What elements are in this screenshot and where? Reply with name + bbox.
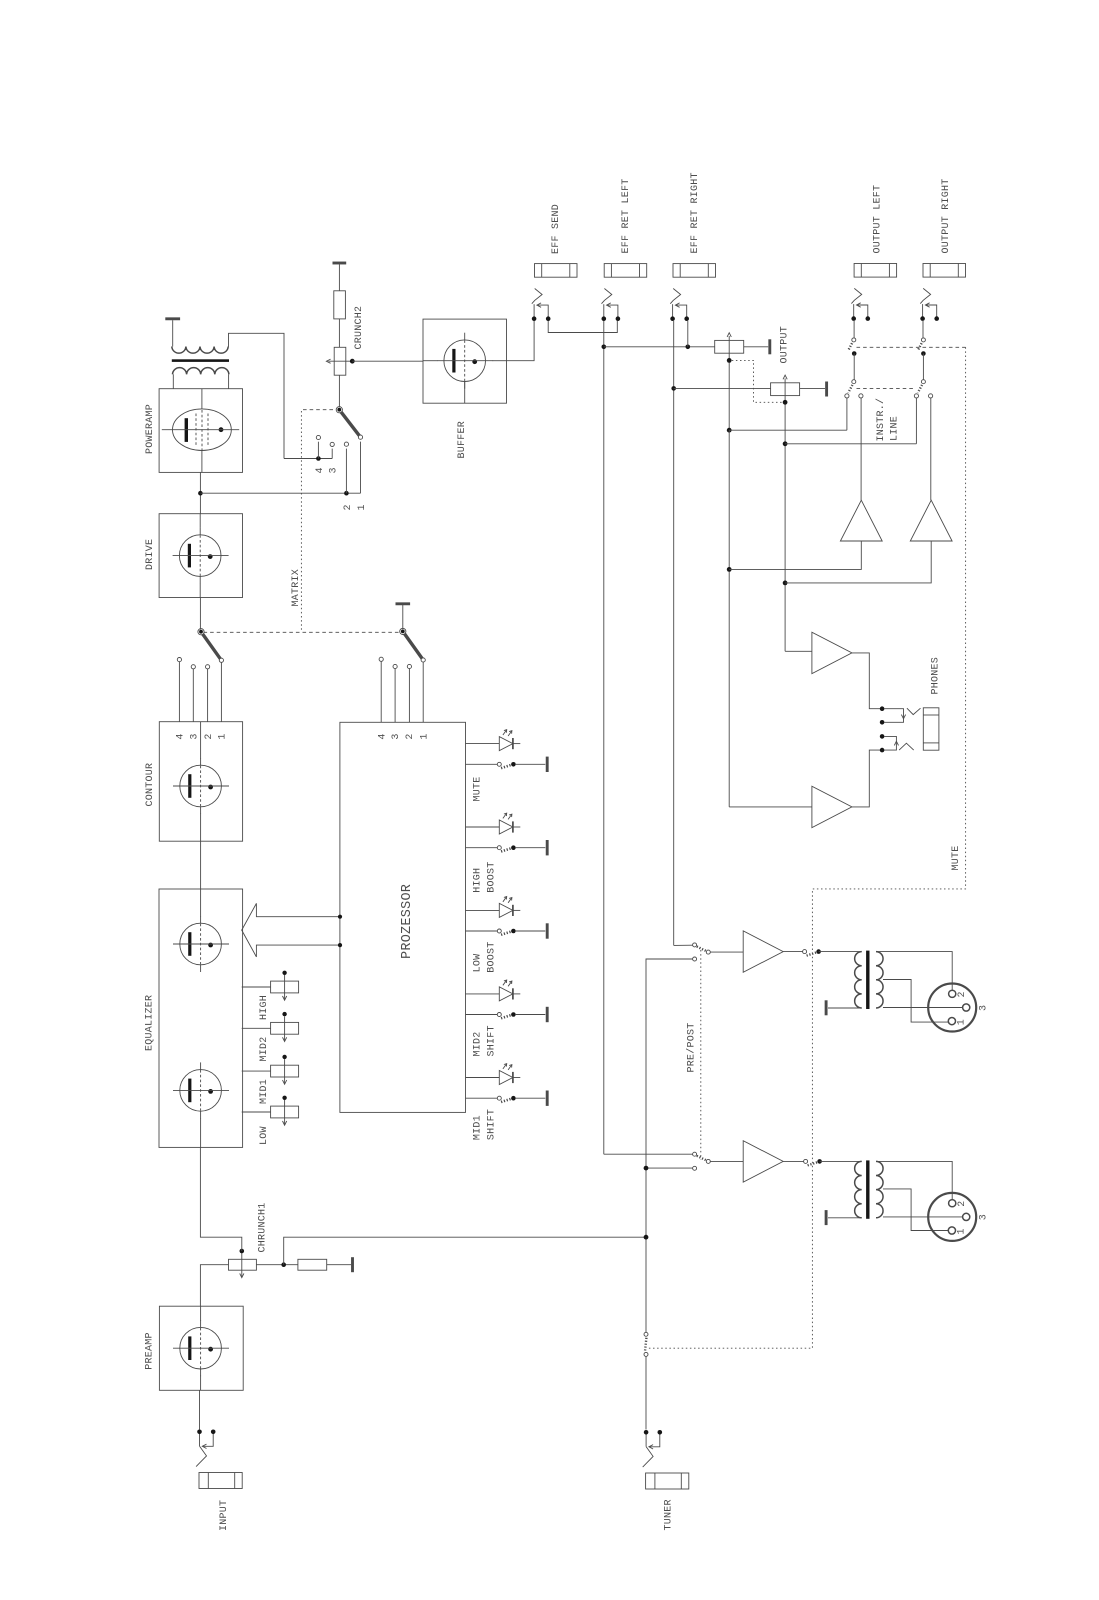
wire to output pot right gang — [674, 387, 771, 389]
svg-text:HIGH: HIGH — [472, 868, 483, 893]
jack OUTPUT RIGHT — [920, 264, 965, 321]
svg-text:PRE/POST: PRE/POST — [686, 1022, 698, 1072]
jack EFF SEND — [532, 264, 577, 321]
svg-text:3: 3 — [391, 733, 402, 739]
amp line L — [840, 500, 882, 541]
wire T2 bottom to xlr pin3 — [883, 1007, 962, 1009]
wire terminal to primary — [172, 320, 174, 346]
svg-text:4: 4 — [176, 733, 187, 739]
wire pot1 wiper to instr switch — [727, 428, 732, 433]
wire T2 secondary to xlr pin2 — [877, 952, 953, 990]
wire EQ bottom to CHRUNCH1 wiper — [200, 1147, 241, 1251]
jack PHONES — [880, 706, 939, 752]
tube V2 equalizer — [173, 916, 229, 972]
wire crunch2 wiper to buffer — [352, 360, 423, 362]
svg-text:3: 3 — [190, 733, 201, 739]
jack EFF RET RIGHT — [670, 264, 715, 321]
transformer T2 — [855, 951, 883, 1009]
tube V6 poweramp pentode — [173, 409, 232, 451]
wire primary to matrix contacts — [229, 333, 285, 458]
wire T3 secondary to xlr pin2 — [877, 1161, 953, 1199]
instr/line switch right — [914, 380, 932, 398]
svg-text:BOOST: BOOST — [487, 942, 498, 973]
switch mid1 shift — [466, 1091, 548, 1106]
svg-text:PHONES: PHONES — [931, 657, 942, 695]
svg-text:CONTOUR: CONTOUR — [145, 763, 156, 807]
wire drive to poweramp — [199, 472, 201, 513]
resistor R1 — [298, 1259, 327, 1270]
DI mute switch B — [804, 1159, 822, 1165]
svg-text:2: 2 — [957, 991, 968, 997]
rotary selector S3 prozessor — [379, 628, 425, 668]
slider MID2 — [242, 1012, 299, 1042]
XLR connector B — [928, 1193, 976, 1241]
wire eff ret left down to pre contact B — [603, 321, 605, 1154]
pre/post switch B — [693, 1152, 711, 1170]
slider LOW — [242, 1096, 299, 1126]
wire crunch node to post bus — [284, 1237, 646, 1265]
slider MID1 — [242, 1055, 299, 1085]
svg-text:LINE: LINE — [890, 416, 901, 441]
terminal bar T3 — [825, 1210, 828, 1225]
wire T3 primary to ground — [828, 1217, 862, 1219]
wire input to preamp — [199, 1390, 201, 1429]
terminal bar top left — [165, 317, 180, 320]
dashed mute link path — [648, 347, 965, 1348]
wire crunch2 chain — [338, 264, 340, 290]
wire eff ret right tip down to pre contact A — [673, 321, 675, 945]
tube V4 contour — [173, 758, 229, 814]
block CONTOUR — [159, 722, 242, 842]
jack OUTPUT LEFT — [851, 264, 896, 321]
XLR connector A — [928, 984, 976, 1032]
amp phones R — [812, 786, 852, 827]
tube V5 drive — [173, 528, 229, 584]
slider HIGH — [242, 971, 299, 1001]
svg-text:CHRUNCH1: CHRUNCH1 — [258, 1202, 269, 1252]
wire pot2 wiper to instr switch R — [783, 441, 788, 446]
dashed matrix link — [204, 631, 401, 633]
svg-text:1: 1 — [357, 504, 368, 510]
dashed gang link output pots — [732, 360, 783, 402]
wire eff ret right switch contact — [687, 321, 689, 347]
mute switch left — [848, 321, 857, 380]
dashed gang mute switches — [857, 346, 966, 348]
block DRIVE — [159, 514, 242, 598]
potentiometer CHRUNCH1 — [229, 1259, 257, 1270]
resistor R2 — [334, 291, 346, 319]
svg-text:1: 1 — [957, 1019, 968, 1025]
arrow prozessor to equalizer — [242, 903, 340, 957]
svg-text:MUTE: MUTE — [951, 845, 962, 870]
output transformer T1 — [172, 347, 228, 354]
dashed gang instr/line switches — [857, 387, 915, 389]
transformer T3 — [855, 1160, 883, 1218]
wire T2 tap to xlr pin1 — [883, 980, 948, 1023]
wire eff send to ret left normalling — [548, 321, 617, 333]
wire to line amp L — [729, 541, 861, 569]
terminal bar — [351, 1257, 354, 1272]
svg-text:POWERAMP: POWERAMP — [145, 404, 156, 454]
switch low boost — [466, 923, 548, 938]
rotary selector S2 matrix — [316, 407, 362, 447]
block EQUALIZER — [159, 889, 243, 1147]
wire post contact A — [646, 959, 693, 1332]
svg-text:MID2: MID2 — [472, 1031, 483, 1056]
wire CHRUNCH1 right to resistor — [256, 1264, 298, 1266]
svg-text:HIGH: HIGH — [259, 995, 270, 1020]
svg-text:PREAMP: PREAMP — [145, 1332, 156, 1370]
wire T2 primary to ground — [828, 1007, 862, 1009]
DI mute switch A — [803, 949, 821, 955]
svg-text:INPUT: INPUT — [219, 1500, 230, 1531]
jack TUNER — [643, 1430, 689, 1489]
svg-text:2: 2 — [405, 733, 416, 739]
svg-text:3: 3 — [979, 1214, 990, 1220]
svg-text:2: 2 — [204, 733, 215, 739]
svg-text:OUTPUT: OUTPUT — [780, 326, 791, 364]
amp line R — [910, 500, 952, 541]
terminal bar pot1 — [768, 339, 771, 354]
svg-text:OUTPUT LEFT: OUTPUT LEFT — [872, 185, 883, 254]
wire matrix contacts 2-1 to drive node — [200, 492, 360, 494]
wire phones R out — [852, 750, 880, 807]
wire return bus to output pot — [604, 346, 715, 348]
wire T3 bottom to xlr pin3 — [883, 1216, 962, 1218]
svg-text:MID1: MID1 — [472, 1115, 483, 1140]
svg-text:2: 2 — [343, 504, 354, 510]
svg-text:MID1: MID1 — [259, 1079, 270, 1104]
svg-text:EFF RET LEFT: EFF RET LEFT — [621, 178, 632, 253]
svg-text:MUTE: MUTE — [472, 776, 483, 801]
svg-text:CRUNCH2: CRUNCH2 — [354, 306, 365, 350]
pre/post switch A — [693, 943, 711, 961]
amp phones L — [812, 632, 852, 673]
svg-text:1: 1 — [420, 733, 431, 739]
mute switch right — [918, 321, 926, 380]
svg-text:1: 1 — [957, 1228, 968, 1234]
potentiometer OUTPUT left gang — [715, 340, 744, 353]
svg-text:4: 4 — [315, 467, 326, 473]
switch mid2 shift — [466, 1007, 548, 1022]
tube V3 equalizer — [173, 1062, 229, 1118]
instr/line switch left — [845, 380, 863, 398]
wire T3 tap to xlr pin1 — [883, 1189, 948, 1231]
svg-text:DRIVE: DRIVE — [145, 539, 156, 570]
wire post contact B — [646, 1167, 693, 1169]
svg-text:2: 2 — [957, 1200, 968, 1206]
block BUFFER — [423, 319, 507, 403]
svg-text:3: 3 — [329, 467, 340, 473]
wire drive to selector — [199, 598, 201, 630]
wire resistor to terminal — [327, 1264, 351, 1266]
svg-text:OUTPUT RIGHT: OUTPUT RIGHT — [941, 178, 952, 253]
svg-text:SHIFT: SHIFT — [487, 1109, 498, 1140]
svg-text:3: 3 — [979, 1005, 990, 1011]
svg-text:EQUALIZER: EQUALIZER — [145, 995, 156, 1051]
tuner mute switch — [644, 1332, 648, 1429]
svg-text:TUNER: TUNER — [664, 1499, 675, 1530]
svg-text:LOW: LOW — [472, 954, 483, 973]
LED mute — [466, 730, 521, 751]
terminal bar pot2 — [825, 382, 828, 397]
LED high boost — [466, 813, 521, 834]
potentiometer CRUNCH2 — [334, 347, 346, 375]
block PREAMP — [159, 1306, 243, 1390]
terminal bar T2 — [825, 1000, 828, 1015]
terminal stub above S3 — [402, 605, 404, 629]
wire EQ top to contour — [200, 841, 202, 889]
svg-text:4: 4 — [377, 733, 388, 739]
svg-text:EFF RET RIGHT: EFF RET RIGHT — [690, 172, 701, 253]
svg-text:BOOST: BOOST — [487, 862, 498, 893]
tube V1 preamp — [173, 1320, 229, 1376]
amp DI A — [743, 931, 783, 972]
amp DI B — [743, 1141, 783, 1182]
tube V7 buffer — [437, 333, 493, 389]
INPUT jack J1 — [196, 1430, 242, 1489]
wire buffer to eff send — [507, 321, 535, 361]
svg-text:INSTR./: INSTR./ — [875, 398, 887, 442]
svg-text:BUFFER: BUFFER — [457, 421, 468, 459]
LED low boost — [466, 897, 521, 918]
wire preamp to pot CHRUNCH1 — [200, 1265, 228, 1307]
switch high boost — [466, 840, 548, 855]
switch mute — [466, 757, 548, 772]
svg-text:MID2: MID2 — [259, 1036, 270, 1061]
rotary selector S1 contour-drive — [177, 629, 223, 669]
svg-text:PROZESSOR: PROZESSOR — [400, 884, 415, 959]
LED mid1 shift — [466, 1064, 521, 1085]
wires transformer secondary to poweramp — [172, 374, 174, 388]
wire phones L out — [852, 653, 880, 709]
svg-text:EFF SEND: EFF SEND — [551, 204, 562, 254]
dashed gang pre/post — [700, 950, 702, 1160]
wire to line amp R — [785, 541, 931, 583]
svg-text:1: 1 — [218, 733, 229, 739]
svg-text:SHIFT: SHIFT — [487, 1025, 498, 1056]
LED mid2 shift — [466, 980, 521, 1001]
block POWERAMP — [159, 389, 242, 473]
wire matrix contacts 4-3 join — [284, 458, 332, 460]
jack EFF RET LEFT — [602, 264, 647, 321]
svg-text:MATRIX: MATRIX — [291, 569, 302, 607]
svg-text:LOW: LOW — [259, 1126, 270, 1145]
block PROZESSOR — [340, 722, 466, 1112]
terminal bar crunch2 — [333, 262, 347, 265]
potentiometer OUTPUT right gang — [771, 383, 800, 396]
